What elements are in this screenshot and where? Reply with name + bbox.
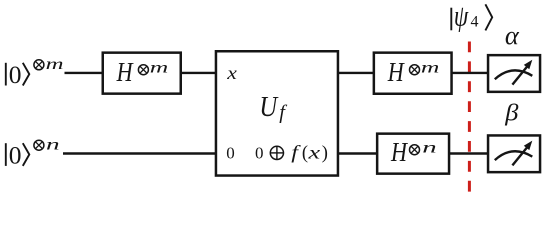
svg-text:U: U: [259, 90, 278, 122]
svg-text:x: x: [307, 142, 320, 162]
svg-text:m: m: [150, 58, 168, 76]
svg-text:m: m: [421, 58, 439, 76]
pin label x (top-left input): [226, 64, 237, 84]
wire bottom: H3 to meter M2: [450, 152, 489, 154]
svg-text:H: H: [387, 58, 405, 88]
ket label |0>^(⊗n) bottom input: [6, 135, 60, 169]
wire bottom: input to Uf: [63, 152, 216, 154]
wire top: H2 to meter M1: [452, 72, 488, 74]
svg-text:0: 0: [9, 60, 22, 89]
gate H2: H^(⊗m) box: [374, 53, 452, 94]
svg-text:n: n: [422, 139, 436, 157]
node label |psi_4> (state at barrier): [451, 0, 492, 32]
svg-text:0: 0: [9, 140, 22, 169]
svg-text:H: H: [116, 58, 134, 88]
oracle Uf box: [216, 51, 338, 175]
meter M2 (bottom measurement): [488, 135, 540, 172]
svg-text:0: 0: [226, 144, 235, 163]
svg-text:(: (: [302, 144, 308, 164]
ket label |0>^(⊗m) top input: [6, 54, 64, 89]
svg-text:α: α: [505, 20, 520, 50]
wire top: input to H1: [65, 72, 104, 74]
svg-text:x: x: [226, 64, 237, 84]
svg-text:4: 4: [471, 13, 479, 30]
gate H1: H^(⊗m) box: [103, 53, 181, 94]
wire top: Uf to H2: [338, 72, 374, 74]
meter M1 (top measurement): [488, 55, 540, 92]
measurement label beta: [504, 101, 519, 127]
svg-text:ψ: ψ: [454, 0, 469, 32]
wire top: H1 to Uf: [181, 72, 216, 74]
svg-text:H: H: [390, 138, 408, 168]
wire bottom: Uf to H3: [338, 152, 377, 154]
barrier: red dashed line: [468, 42, 471, 192]
svg-text:0: 0: [255, 144, 264, 163]
svg-text:β: β: [504, 101, 519, 127]
svg-text:): ): [322, 144, 328, 164]
value label U_f: [259, 90, 278, 122]
svg-text:n: n: [46, 135, 60, 153]
svg-text:m: m: [46, 54, 64, 72]
gate H3: H^(⊗n) box: [377, 134, 449, 174]
